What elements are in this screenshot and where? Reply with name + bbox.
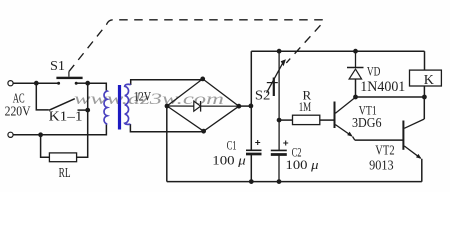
wire AC top left <box>13 82 58 84</box>
transistor VT1 <box>335 97 356 140</box>
wire VT1 emitter to VT2 base <box>355 139 403 141</box>
svg-text:220V: 220V <box>5 105 31 120</box>
node A bottom <box>38 132 43 137</box>
resistor RL <box>49 153 76 162</box>
mechanical link dashes S1 to S2 <box>69 20 323 72</box>
relay contact K1-1 <box>49 99 75 111</box>
node bridge bottom <box>201 129 206 134</box>
diode VD <box>347 51 364 97</box>
wire K node down to VT2 collector <box>423 97 425 119</box>
node C1 ground <box>249 179 254 184</box>
wire secondary bottom to bridge bottom corner <box>130 124 203 132</box>
switch S1 <box>56 72 87 85</box>
wire bridge right corner to C1 node <box>239 105 251 107</box>
wire top to transformer <box>88 83 107 91</box>
terminal top-left <box>8 81 13 86</box>
wire VD node to K node <box>356 96 425 98</box>
svg-text:100 μ: 100 μ <box>212 153 246 168</box>
wire node A down to RL <box>41 135 50 158</box>
wire right vertical S1/K1-1 to RL (crosses bottom wire) <box>77 83 88 157</box>
transformer core <box>118 85 121 130</box>
capacitor C2 <box>271 120 288 182</box>
node DC plus <box>249 104 254 109</box>
wire R node to resistor R <box>279 119 292 121</box>
node VD anode / VT1 collector <box>353 95 358 100</box>
bridge inner diode <box>167 101 239 112</box>
node bridge left <box>165 104 170 109</box>
node left of S1 <box>34 81 39 86</box>
ground bottom rail <box>167 181 422 183</box>
wire secondary top to bridge <box>131 80 203 85</box>
node bridge right <box>237 104 242 109</box>
relay K box <box>410 70 442 86</box>
capacitor C1 <box>246 140 262 154</box>
node S2 top <box>277 49 282 54</box>
svg-text:C1: C1 <box>227 137 237 152</box>
node C2 ground <box>277 179 282 184</box>
bridge rectifier diamond <box>167 79 239 131</box>
wire C1 vertical column <box>250 51 252 150</box>
resistor R <box>293 115 320 124</box>
wire AC bottom <box>13 124 106 135</box>
svg-text:K1–1: K1–1 <box>49 110 83 125</box>
transformer T primary winding <box>104 91 107 125</box>
transformer T secondary winding <box>125 84 131 124</box>
svg-text:1N4001: 1N4001 <box>360 79 405 95</box>
node R left / C2 top <box>277 118 282 123</box>
svg-text:VD: VD <box>367 64 381 79</box>
svg-text:VT2: VT2 <box>375 143 394 158</box>
switch S2 <box>267 51 286 120</box>
node right of S1 <box>85 81 90 86</box>
svg-text:3DG6: 3DG6 <box>352 115 382 130</box>
svg-text:S2: S2 <box>255 88 271 103</box>
svg-text:S1: S1 <box>50 59 65 74</box>
wire R to VT1 base <box>320 119 334 121</box>
terminal bottom-left <box>8 132 13 137</box>
svg-text:AC: AC <box>13 91 25 106</box>
svg-text:12V: 12V <box>134 88 152 103</box>
node K1-1 right <box>85 108 90 113</box>
wire left vertical to K1-1 <box>36 83 49 110</box>
positive top rail <box>251 50 424 52</box>
wire bridge left corner down to ground rail <box>166 106 168 182</box>
svg-text:1M: 1M <box>299 100 312 114</box>
wire VT2 emitter to ground rail <box>421 159 423 182</box>
node K bottom <box>422 95 427 100</box>
wire K bottom stub <box>423 86 425 97</box>
node VD top rail <box>353 49 358 54</box>
svg-text:100 μ: 100 μ <box>286 157 320 172</box>
node bridge top <box>200 77 205 82</box>
svg-text:RL: RL <box>59 166 71 181</box>
svg-text:9013: 9013 <box>369 158 394 173</box>
wire K1-1 right stub <box>78 109 88 111</box>
transistor VT2 <box>403 119 424 159</box>
svg-text:K: K <box>424 73 434 88</box>
wire rail right corner into K <box>424 51 426 70</box>
